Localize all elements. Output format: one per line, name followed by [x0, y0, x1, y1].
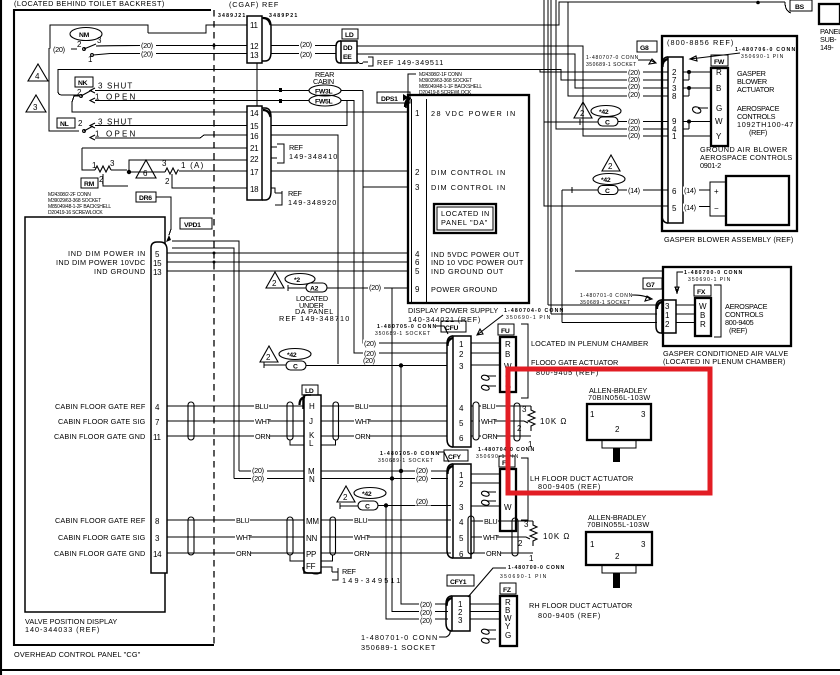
wire DD onward: [357, 46, 668, 136]
shield capsule upper left: [188, 402, 194, 440]
svg-text:1-480700-0 CONN: 1-480700-0 CONN: [508, 565, 564, 571]
shield capsule lower LD right: [330, 517, 336, 555]
svg-text:BLU: BLU: [484, 517, 497, 526]
svg-text:C: C: [605, 188, 610, 195]
svg-text:(20): (20): [141, 49, 153, 58]
svg-text:14: 14: [250, 109, 259, 118]
svg-text:(LOCATED IN PLENUM CHAMBER): (LOCATED IN PLENUM CHAMBER): [663, 357, 785, 366]
svg-text:149-: 149-: [820, 43, 834, 52]
wire VPD1 pin13 to DPS1 pin5: [167, 270, 408, 272]
wire junction to pin 22: [129, 160, 247, 172]
svg-text:(20): (20): [420, 616, 432, 625]
svg-text:10K Ω: 10K Ω: [543, 532, 569, 541]
svg-text:FX: FX: [697, 289, 706, 296]
bracket aerospace controls valve: [714, 285, 721, 337]
ref bracket pin 18: [271, 188, 282, 205]
connector 3489J21/P21 lower shell: [247, 106, 262, 200]
wire VPD1 pin8 BLU to LD MM: [167, 519, 304, 521]
svg-text:DIM CONTROL IN: DIM CONTROL IN: [431, 168, 505, 177]
connector LD mid shell: [303, 395, 311, 409]
connector CFY shell: [447, 464, 453, 558]
wire VPD1 pin15 to DPS1 pin6: [167, 261, 408, 263]
svg-text:5: 5: [672, 204, 677, 213]
wires CFY to FY: [471, 474, 500, 506]
svg-text:BLU: BLU: [255, 402, 268, 411]
svg-text:BLU: BLU: [355, 402, 368, 411]
resistor 10K upper: [524, 406, 535, 431]
svg-text:PP: PP: [306, 550, 316, 559]
wire gauge and colour labels layer: [52, 40, 699, 625]
sheet border left: [0, 0, 2, 675]
svg-text:IND GROUND: IND GROUND: [94, 267, 145, 276]
svg-text:CFY: CFY: [448, 454, 461, 461]
overhead control panel dashed boundary: [213, 10, 215, 645]
svg-text:3: 3: [665, 302, 670, 311]
svg-text:2: 2: [459, 480, 464, 489]
junction where wires cross panel boundary: [213, 44, 216, 47]
svg-text:350689-1 SOCKET: 350689-1 SOCKET: [375, 331, 430, 337]
svg-text:(20): (20): [628, 90, 640, 99]
svg-text:(REF): (REF): [749, 128, 767, 137]
shield drains to pin FF: [290, 555, 333, 561]
svg-text:(20): (20): [53, 45, 65, 54]
svg-text:NM: NM: [79, 32, 90, 39]
svg-text:FW: FW: [714, 59, 725, 66]
svg-text:5: 5: [415, 267, 420, 276]
connector G7 shell: [656, 300, 662, 333]
RM wiper wire: [103, 174, 128, 186]
triangle note 2 with *2 splice: [266, 272, 284, 288]
connector DD/EE shell: [336, 41, 341, 63]
wire NL-3 to pin 15: [95, 125, 247, 127]
wire drop N to CFY1 pin 2: [392, 479, 448, 612]
svg-text:*42: *42: [599, 109, 609, 116]
resistor 10K lower: [526, 521, 537, 546]
VPD1 label box: [180, 218, 212, 229]
wires CFU to FU: [471, 343, 500, 365]
wires G8 to FW with jumpers: [683, 72, 711, 136]
svg-text:*42: *42: [601, 177, 611, 184]
svg-text:PANEL "DA": PANEL "DA": [441, 218, 488, 227]
wire RM-1 to pin 21: [82, 147, 247, 149]
wire pin 14 to DPS1 pin 1: [271, 111, 408, 113]
svg-text:B: B: [700, 311, 705, 320]
svg-text:VPD1: VPD1: [184, 222, 201, 229]
connector CFY1 shell: [446, 596, 452, 631]
svg-text:3489P21: 3489P21: [269, 13, 297, 19]
svg-text:2: 2: [615, 425, 620, 434]
AB lower mounting tab: [602, 565, 636, 573]
svg-text:1-480704-0 CONN: 1-480704-0 CONN: [504, 308, 563, 314]
shield drains to pin L: [290, 440, 336, 445]
svg-text:(20): (20): [300, 50, 312, 59]
wire NK common to pin 14: [72, 96, 247, 112]
svg-text:18: 18: [250, 185, 259, 194]
DPS1 pin column: [412, 99, 427, 303]
FZ label box: [500, 583, 516, 594]
svg-text:C: C: [605, 120, 610, 127]
splice FW3L oval: [309, 85, 341, 96]
svg-text:8: 8: [672, 92, 677, 101]
svg-text:28 VDC POWER IN: 28 VDC POWER IN: [431, 109, 515, 118]
svg-text:BS: BS: [795, 4, 805, 11]
svg-text:1: 1: [459, 340, 464, 349]
top feeder wire to panel BS: [568, 1, 785, 3]
wire pin 16 down-link: [271, 135, 338, 364]
ref bracket at LD FF: [321, 567, 338, 580]
svg-text:W: W: [699, 302, 707, 311]
svg-text:RM: RM: [84, 181, 95, 188]
svg-text:(20): (20): [369, 283, 381, 292]
wires into G8 pins 9,4,1: [618, 121, 668, 123]
svg-text:OVERHEAD CONTROL PANEL "CG": OVERHEAD CONTROL PANEL "CG": [14, 650, 141, 659]
svg-text:(14): (14): [628, 186, 640, 195]
wire VPD1 pin3 WHT to LD NN: [167, 536, 304, 538]
svg-text:6: 6: [415, 258, 420, 267]
junction dot to M wire: [399, 363, 403, 367]
svg-text:BLU: BLU: [354, 516, 367, 525]
shield capsule lower left: [188, 517, 194, 555]
svg-text:(LOCATED BEHIND TOILET BACKRES: (LOCATED BEHIND TOILET BACKREST): [14, 0, 164, 8]
svg-text:3: 3: [459, 503, 464, 512]
FU label box: [498, 324, 514, 335]
svg-text:1-480705-0 CONN: 1-480705-0 CONN: [377, 324, 436, 330]
junction dot C wire: [384, 503, 388, 507]
svg-text:5: 5: [459, 534, 464, 543]
wire DR6-2 to pin 18: [172, 174, 247, 188]
wire NM box to pin 11: [148, 25, 247, 33]
triangle note 6: [136, 160, 156, 178]
svg-text:POWER GROUND: POWER GROUND: [431, 285, 497, 294]
svg-text:4: 4: [459, 404, 464, 413]
svg-text:W: W: [715, 117, 723, 126]
svg-text:15: 15: [250, 122, 259, 131]
svg-text:CFY1: CFY1: [450, 579, 467, 586]
svg-text:11: 11: [153, 433, 162, 442]
svg-text:1-480706-0 CONN: 1-480706-0 CONN: [735, 47, 795, 53]
svg-text:R: R: [716, 68, 722, 77]
ref bracket pins 21/22: [271, 144, 284, 163]
svg-text:CABIN FLOOR GATE REF: CABIN FLOOR GATE REF: [55, 516, 146, 525]
svg-text:800-9405 (REF): 800-9405 (REF): [538, 482, 600, 491]
svg-text:3: 3: [97, 36, 102, 45]
svg-text:(20): (20): [416, 474, 428, 483]
svg-text:2: 2: [77, 40, 82, 49]
junction dot on A2 branch: [391, 288, 393, 481]
wires into G8 pins 2,7,3,8: [544, 0, 668, 323]
NM contact 1: [91, 54, 94, 57]
svg-text:350689-1 SOCKET: 350689-1 SOCKET: [378, 458, 433, 464]
svg-text:N: N: [309, 475, 315, 484]
svg-text:3: 3: [641, 540, 646, 549]
svg-text:9: 9: [415, 285, 420, 294]
display power supply DPS1 box: [408, 95, 529, 303]
svg-text:3: 3: [415, 183, 420, 192]
svg-text:6: 6: [459, 434, 464, 443]
svg-text:C: C: [293, 364, 298, 371]
svg-text:IND DIM POWER 10VDC: IND DIM POWER 10VDC: [56, 258, 145, 267]
svg-text:FW5L: FW5L: [315, 99, 332, 106]
NM common contact: [83, 48, 86, 51]
spare hook at FW G: [693, 107, 708, 113]
sheet border bottom: [0, 669, 840, 671]
FW label box: [711, 55, 728, 66]
shield pigtail A2 to DPS1 pin 9: [288, 285, 306, 291]
gasper blower assembly box: [662, 36, 797, 231]
located in panel DA note box: [434, 204, 496, 233]
svg-text:800-9405 (REF): 800-9405 (REF): [538, 611, 600, 620]
shield capsule right of CFY: [468, 516, 474, 554]
wire LD M to CFY pin 1: [172, 241, 448, 471]
RM label box: [81, 178, 98, 188]
svg-text:FW3L: FW3L: [315, 89, 332, 96]
svg-text:1-480700-0 CONN: 1-480700-0 CONN: [684, 270, 742, 276]
shield pigtail C to CFY pin 3: [340, 503, 358, 509]
svg-text:350690-1 PIN: 350690-1 PIN: [741, 54, 784, 60]
switch NK label box: [75, 77, 93, 87]
wire across to valve connector: [575, 270, 663, 272]
svg-text:149-348410: 149-348410: [289, 152, 337, 161]
svg-text:3: 3: [641, 410, 646, 419]
svg-text:G: G: [505, 631, 511, 640]
svg-text:22: 22: [250, 155, 259, 164]
wire VPD1 pin14 ORN to LD PP: [167, 552, 304, 554]
svg-text:*42: *42: [362, 491, 372, 498]
svg-text:CABIN FLOOR GATE GND: CABIN FLOOR GATE GND: [54, 549, 145, 558]
svg-text:140-344021 (REF): 140-344021 (REF): [408, 315, 480, 324]
shield pigtail C to CFU pin 3: [264, 362, 286, 368]
VPD1 display pin strip: [151, 242, 167, 573]
svg-text:B: B: [505, 350, 510, 359]
svg-text:350690-1 PIN: 350690-1 PIN: [506, 315, 551, 321]
svg-text:70BIN056L-103W: 70BIN056L-103W: [588, 393, 650, 402]
svg-text:(20): (20): [628, 131, 640, 140]
svg-text:WHT: WHT: [355, 417, 372, 426]
svg-text:EE: EE: [343, 54, 352, 61]
wire (20) feed to NM common: [49, 48, 79, 131]
boundary splice dots: [213, 252, 216, 255]
svg-text:3489J21: 3489J21: [218, 13, 245, 19]
svg-text:ORN: ORN: [486, 549, 501, 558]
triangle 2 and *42 shield splice C to pin 9: [574, 102, 592, 118]
svg-text:1: 1: [590, 410, 595, 419]
potentiometer RM leads: [82, 148, 127, 183]
svg-text:R: R: [700, 320, 706, 329]
svg-text:1: 1: [529, 554, 534, 563]
svg-text:DPS1: DPS1: [381, 96, 398, 103]
svg-text:ORN: ORN: [482, 432, 497, 441]
wires CFY 4,5,6 to resistor lower: [471, 521, 533, 553]
wire NK-1 to FW5L: [95, 100, 309, 102]
svg-text:*42: *42: [287, 352, 297, 359]
connector shell link: [256, 63, 258, 106]
junction node RM-3: [127, 170, 131, 174]
spare hooks at FY: [481, 491, 496, 505]
svg-text:WHT: WHT: [236, 533, 253, 542]
svg-text:(20): (20): [416, 497, 428, 506]
svg-text:Y: Y: [716, 132, 722, 141]
actuator FZ pin strip: [500, 596, 517, 646]
svg-text:21: 21: [250, 144, 259, 153]
CFY1 label box: [447, 575, 474, 586]
svg-text:350690-1 PIN: 350690-1 PIN: [476, 454, 519, 460]
svg-text:IND 10 VDC POWER OUT: IND 10 VDC POWER OUT: [431, 258, 524, 267]
wire VPD1 pin5 to DPS1 pin4: [167, 252, 408, 254]
svg-text:2: 2: [615, 552, 620, 561]
svg-text:DIM CONTROL IN: DIM CONTROL IN: [431, 183, 505, 192]
svg-text:(REF): (REF): [729, 326, 747, 335]
svg-text:5: 5: [459, 419, 464, 428]
gasper conditioned air valve box: [663, 267, 791, 346]
junction dots M N: [399, 469, 403, 473]
svg-text:1: 1: [672, 132, 677, 141]
FY label box: [499, 456, 515, 467]
svg-text:−: −: [714, 204, 719, 213]
svg-text:R: R: [505, 340, 511, 349]
svg-text:FLOOD GATE ACTUATOR: FLOOD GATE ACTUATOR: [531, 358, 618, 367]
svg-text:2: 2: [518, 539, 523, 548]
wire DR6-1 to pin 17: [179, 170, 247, 172]
shield capsule lower LD left: [287, 517, 293, 555]
svg-text:W: W: [504, 503, 512, 512]
svg-text:FF: FF: [306, 562, 316, 571]
svg-text:REF 149-348710: REF 149-348710: [279, 314, 349, 323]
svg-text:ORN: ORN: [255, 432, 270, 441]
wire EE onward: [357, 54, 668, 88]
svg-text:GASPER BLOWER ASSEMBLY (REF: GASPER BLOWER ASSEMBLY (REF): [664, 235, 793, 244]
svg-text:B: B: [716, 84, 721, 93]
switch NM oval label: [70, 28, 102, 41]
svg-text:14: 14: [153, 550, 162, 559]
svg-text:REF: REF: [289, 143, 304, 152]
triangle note 3: [26, 95, 46, 112]
valve position display box: [25, 217, 165, 612]
svg-text:1: 1: [665, 311, 670, 320]
svg-text:G: G: [716, 104, 722, 113]
LD label box lower: [302, 385, 318, 395]
ref bracket 149-349511: [363, 57, 373, 66]
leader from DR6 to VPD1 strip: [156, 197, 171, 235]
svg-text:11: 11: [250, 21, 259, 30]
NK common contact: [80, 95, 83, 98]
triangle note 2 with *42 splice upper-mid: [260, 346, 278, 362]
svg-text:REF: REF: [288, 189, 303, 198]
svg-text:1 (A): 1 (A): [181, 161, 204, 170]
splice ticks on rear cabin wires: [279, 88, 282, 92]
CFU label box: [441, 321, 466, 332]
wire drop to CFY1 pin 1: [401, 366, 448, 605]
LD label box upper: [342, 29, 358, 39]
highlight red rectangle: [508, 369, 710, 493]
wire pin 15 up-link: [271, 101, 347, 126]
svg-text:1-480707-0 CONN: 1-480707-0 CONN: [586, 55, 639, 61]
wire NM-1 to pin 13: [93, 54, 247, 56]
wire pin 13 to EE: [271, 53, 336, 55]
shield capsule at LD left: [287, 402, 293, 440]
svg-text:140-344033 (REF): 140-344033 (REF): [25, 625, 99, 634]
svg-text:13: 13: [250, 51, 259, 60]
svg-text:CABIN FLOOR GATE SIG: CABIN FLOOR GATE SIG: [58, 533, 146, 542]
svg-text:1-480701-0 CONN: 1-480701-0 CONN: [361, 633, 437, 642]
svg-text:350690-1 PIN: 350690-1 PIN: [500, 574, 547, 580]
svg-text:1: 1: [459, 471, 464, 480]
wires LD to CFU pins 4,5,6: [321, 406, 447, 436]
triangle note 4: [28, 64, 48, 81]
AB upper mounting tab: [602, 440, 636, 448]
svg-text:J: J: [309, 417, 313, 426]
svg-text:2: 2: [580, 109, 585, 118]
svg-text:4: 4: [459, 518, 464, 527]
wires down into G7: [548, 305, 657, 323]
svg-text:*2: *2: [294, 277, 300, 284]
wire NM-3 to pin 12: [96, 45, 247, 48]
svg-text:BLU: BLU: [236, 516, 249, 525]
svg-text:1 OPEN: 1 OPEN: [95, 130, 136, 139]
svg-text:2: 2: [517, 424, 522, 433]
svg-text:16: 16: [250, 132, 259, 141]
svg-text:17: 17: [250, 168, 259, 177]
svg-text:FU: FU: [501, 328, 510, 335]
svg-text:LD: LD: [345, 32, 354, 39]
svg-text:DISPLAY POWER SUPPLY: DISPLAY POWER SUPPLY: [408, 306, 498, 315]
svg-text:3: 3: [458, 616, 463, 625]
svg-text:ACTUATOR: ACTUATOR: [737, 85, 774, 94]
panel sub box top right: [819, 4, 840, 24]
triangle note 2 with *42 splice lower: [337, 486, 355, 502]
svg-text:(20): (20): [364, 349, 376, 358]
svg-text:1: 1: [590, 540, 595, 549]
shield capsule LD right: [333, 402, 339, 440]
svg-text:3 SHUT: 3 SHUT: [98, 82, 132, 91]
svg-text:LD: LD: [305, 388, 314, 395]
potentiometer Allen-Bradley box lower: [586, 532, 652, 565]
wire pin 12 to DD: [271, 45, 336, 47]
shield capsule before resistor lower: [512, 518, 518, 556]
FX label box: [694, 285, 711, 296]
NM switch body box: [50, 25, 148, 49]
svg-text:NL: NL: [60, 121, 69, 128]
wire top feeder from NK area: [58, 70, 668, 96]
svg-text:13: 13: [153, 268, 162, 277]
NL contact arrows: [90, 123, 95, 140]
svg-text:6: 6: [143, 169, 148, 178]
wires G8 pins 6,5 to motor: [683, 190, 710, 207]
wires G7 to FX: [676, 305, 695, 323]
svg-text:2: 2: [272, 279, 277, 288]
resistor DR6 zigzag: [165, 168, 179, 174]
svg-text:CABIN FLOOR GATE REF: CABIN FLOOR GATE REF: [55, 402, 146, 411]
svg-text:3: 3: [33, 103, 38, 112]
svg-text:IND DIM POWER IN: IND DIM POWER IN: [68, 249, 145, 258]
svg-text:FZ: FZ: [503, 587, 511, 594]
svg-text:Y: Y: [505, 622, 511, 631]
BS flag: [785, 2, 791, 13]
svg-text:2: 2: [665, 320, 670, 329]
svg-text:1: 1: [415, 109, 420, 118]
svg-text:3: 3: [110, 159, 115, 168]
svg-text:2: 2: [459, 350, 464, 359]
svg-text:RH FLOOR DUCT ACTUATOR: RH FLOOR DUCT ACTUATOR: [529, 601, 632, 610]
svg-text:CABIN FLOOR GATE GND: CABIN FLOOR GATE GND: [54, 432, 145, 441]
blower motor: [726, 176, 789, 225]
svg-text:(20): (20): [364, 339, 376, 348]
svg-text:12: 12: [250, 42, 259, 51]
svg-text:WHT: WHT: [354, 533, 371, 542]
svg-text:2: 2: [415, 168, 420, 177]
wires CFU 4,5,6 to resistor: [471, 406, 531, 436]
long feeder wires to gasper: [271, 2, 568, 25]
svg-text:(800-8856 REF): (800-8856 REF): [667, 38, 733, 47]
